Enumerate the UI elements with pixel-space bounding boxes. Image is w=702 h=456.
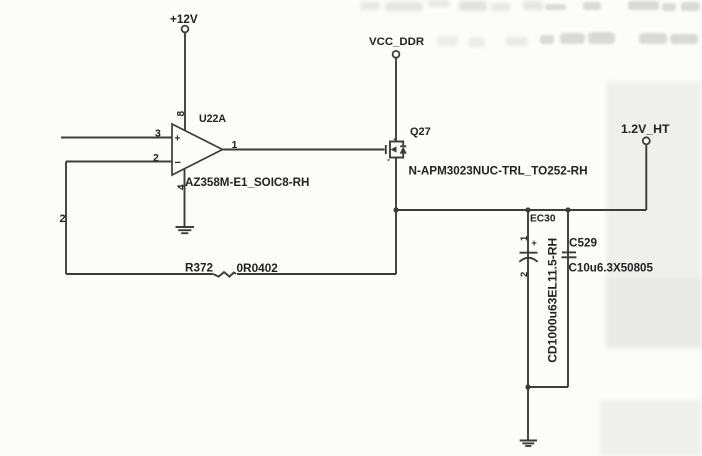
svg-text:1: 1	[519, 235, 530, 241]
ground under U22A	[176, 227, 195, 233]
svg-text:+: +	[532, 238, 537, 248]
power terminal +12V	[170, 13, 198, 32]
svg-text:−: −	[175, 157, 181, 169]
capacitor C529	[562, 210, 577, 387]
wire feedback left vertical	[65, 162, 67, 275]
svg-text:2: 2	[519, 272, 530, 277]
junction node bottom	[525, 384, 530, 389]
svg-text:AZ358M-E1_SOIC8-RH: AZ358M-E1_SOIC8-RH	[185, 176, 309, 189]
op-amp U22A	[172, 124, 223, 175]
power terminal 1.2V_HT	[621, 122, 670, 144]
svg-text:1.2V_HT: 1.2V_HT	[621, 122, 670, 136]
svg-text:VCC_DDR: VCC_DDR	[369, 36, 424, 48]
svg-text:+: +	[175, 134, 181, 145]
junction node C529	[565, 207, 570, 212]
svg-text:CD1000u63EL11.5-RH: CD1000u63EL11.5-RH	[546, 238, 560, 363]
wire U22A pin 4 to ground	[184, 169, 186, 227]
ground bottom	[520, 441, 537, 447]
capacitor EC30	[519, 210, 537, 387]
junction node EC30	[525, 207, 530, 212]
transistor Q27	[386, 138, 407, 161]
wire +12V to U22A pin 8	[184, 33, 186, 131]
wire feedback right vertical / Q27 source to node	[395, 158, 397, 274]
wire input pin 3	[61, 137, 172, 139]
wire output bus	[396, 209, 646, 211]
svg-text:C529: C529	[569, 237, 597, 250]
svg-text:N-APM3023NUC-TRL_TO252-RH: N-APM3023NUC-TRL_TO252-RH	[409, 165, 588, 178]
svg-text:0R0402: 0R0402	[237, 261, 279, 275]
wire VCC_DDR to Q27 drain	[395, 58, 397, 142]
svg-text:R372: R372	[185, 262, 213, 275]
wire U22A output to Q27 gate	[223, 149, 385, 151]
resistor R372	[213, 272, 236, 277]
svg-text:4: 4	[177, 184, 188, 190]
wire junction to ground	[527, 387, 529, 440]
svg-text:+12V: +12V	[170, 13, 198, 26]
wire bottom connecting caps	[528, 386, 568, 388]
svg-text:EC30: EC30	[530, 214, 556, 225]
svg-text:Q27: Q27	[410, 126, 431, 138]
svg-text:8: 8	[176, 111, 187, 117]
wire feedback bottom left segment	[66, 273, 213, 275]
svg-text:C10u6.3X50805: C10u6.3X50805	[569, 262, 654, 275]
wire 1.2V_HT down to bus	[645, 145, 647, 211]
svg-text:2: 2	[60, 213, 66, 225]
svg-text:U22A: U22A	[199, 113, 226, 125]
wire input pin 2	[66, 161, 172, 163]
junction node source/feedback	[393, 207, 398, 212]
power terminal VCC_DDR	[369, 36, 424, 58]
wire feedback bottom right segment	[237, 273, 396, 275]
